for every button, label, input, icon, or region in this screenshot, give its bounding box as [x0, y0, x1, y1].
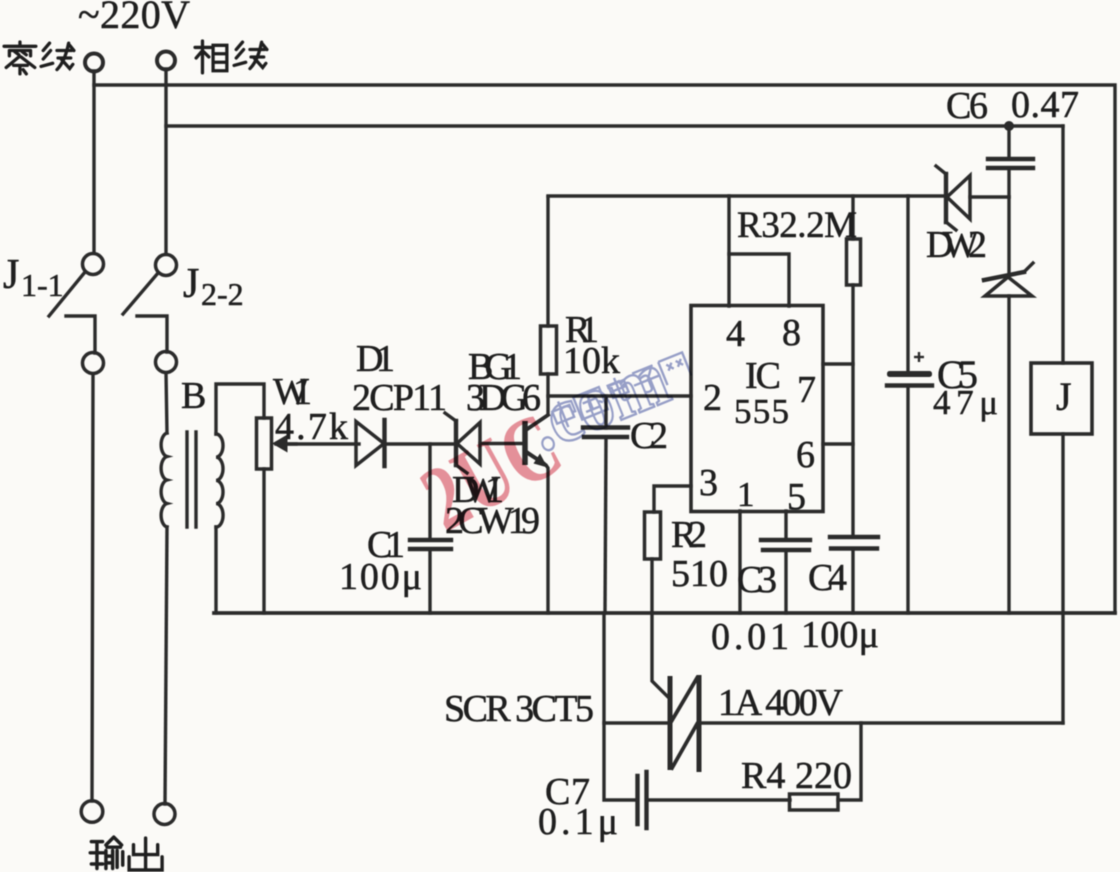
- capacitor C6: [988, 159, 1033, 168]
- wire Vcc rail right of DW2: [970, 195, 1009, 198]
- wire J2-2 to transformer: [166, 373, 167, 433]
- wire C4 to bus: [851, 549, 854, 613]
- wire DW1 to BG1 base: [480, 442, 524, 445]
- IC 555 box: [691, 306, 823, 512]
- zener DW2: [936, 166, 970, 230]
- wire C2 stem: [604, 396, 607, 428]
- wire triac MT2 left: [604, 721, 669, 724]
- svg-text:100μ: 100μ: [339, 556, 422, 598]
- wire W1 wiper to D1: [276, 442, 359, 445]
- wire C1 stem: [428, 444, 431, 540]
- wire R3 top stem: [851, 196, 854, 239]
- relay J box: [1031, 363, 1092, 434]
- resistor R1: [541, 326, 557, 374]
- wire BG1 emitter to bus: [527, 452, 548, 613]
- capacitor C3: [761, 540, 810, 550]
- wire pin3 to R2: [654, 486, 691, 512]
- svg-text:SCR 3CT5: SCR 3CT5: [444, 688, 594, 730]
- resistor R4: [790, 794, 839, 810]
- label 输出: [90, 837, 162, 870]
- capacitor C7: [638, 772, 647, 828]
- wire R2 to gate: [652, 559, 668, 697]
- wire pin2: [548, 394, 691, 397]
- wire zener to bus: [1007, 296, 1010, 613]
- svg-text:J: J: [1056, 374, 1072, 419]
- wire C2 to bus: [605, 437, 606, 613]
- svg-text:6: 6: [796, 434, 815, 476]
- switch J2-2: [123, 255, 177, 373]
- svg-text:1A 400V: 1A 400V: [718, 682, 844, 724]
- svg-text:~220V: ~220V: [78, 0, 190, 37]
- svg-text:2: 2: [703, 377, 722, 419]
- svg-text:4.7k: 4.7k: [275, 406, 348, 448]
- wire C7 to R4: [647, 798, 790, 801]
- wire triac MT1 right: [700, 721, 1063, 724]
- wire W1 bottom to bus: [262, 469, 265, 613]
- wire D1 to DW1: [385, 442, 456, 445]
- svg-text:0.01: 0.01: [711, 616, 789, 658]
- svg-text:100μ: 100μ: [801, 614, 879, 656]
- label 零线: [4, 42, 74, 74]
- resistor R2: [645, 512, 661, 559]
- switch J1-1: [49, 254, 104, 374]
- wire J2-2 lower contact: [137, 316, 167, 352]
- svg-text:C3: C3: [737, 559, 777, 601]
- svg-text:2-2: 2-2: [201, 276, 244, 312]
- wire Vcc rail left: [548, 194, 944, 197]
- WATERMARKS: [405, 334, 692, 551]
- wire R3 bottom to C4: [851, 285, 854, 537]
- label J1-1: [3, 252, 64, 303]
- capacitor C2: [583, 428, 628, 438]
- wire C6 node stem: [1007, 126, 1010, 159]
- wire ground bottom bus: [214, 611, 1115, 615]
- transformer B secondary winding: [216, 434, 223, 527]
- terminal 相线: [157, 52, 175, 70]
- wire neutral top bus: [94, 85, 1115, 613]
- node dot C6 junction: [1004, 121, 1014, 131]
- svg-text:D1: D1: [356, 338, 395, 380]
- wire C6 to DW2 rail: [1007, 168, 1010, 197]
- svg-text:R2: R2: [671, 514, 707, 556]
- svg-text:J: J: [183, 261, 199, 307]
- resistor R3: [847, 239, 861, 285]
- wire pin6 stub: [823, 442, 853, 445]
- svg-text:1: 1: [737, 475, 755, 514]
- svg-text:0.47: 0.47: [1011, 84, 1079, 126]
- wire DW2 rail to zener: [1007, 197, 1010, 273]
- svg-text:510: 510: [671, 553, 728, 595]
- wire J bottom drop: [1061, 434, 1064, 723]
- svg-text:R4 220: R4 220: [741, 755, 852, 797]
- triac SCR 3CT5: [670, 675, 699, 772]
- wire C1 to bus: [428, 549, 431, 613]
- wire R4 to triac wire: [838, 723, 861, 800]
- wire C5 stem: [906, 196, 909, 371]
- svg-text:IC: IC: [745, 355, 781, 397]
- capacitor C5 electrolytic: [887, 352, 932, 386]
- wire secondary top to W1: [216, 384, 264, 434]
- wire snubber left drop: [604, 613, 636, 800]
- svg-text:47μ: 47μ: [933, 383, 998, 422]
- wire transformer to output: [165, 527, 167, 804]
- potentiometer W1: [257, 418, 297, 469]
- svg-text:7: 7: [797, 369, 816, 411]
- capacitor C4: [830, 537, 878, 549]
- terminal 零线: [85, 54, 103, 72]
- svg-text:5: 5: [787, 476, 806, 518]
- wire J1-1 lower contact: [66, 316, 95, 353]
- svg-text:0.1μ: 0.1μ: [538, 801, 618, 843]
- svg-text:J: J: [3, 252, 19, 298]
- wire J1-1 to output: [92, 374, 93, 801]
- svg-text:C4: C4: [808, 557, 847, 599]
- transformer B primary winding: [161, 433, 167, 527]
- svg-text:4: 4: [726, 313, 745, 355]
- svg-text:C6: C6: [946, 85, 988, 127]
- wire pin7 stub: [823, 362, 853, 365]
- wire R1 top: [546, 197, 549, 326]
- zener vertical below DW2: [984, 263, 1033, 296]
- diode D1 2CP11: [356, 420, 385, 466]
- watermark blue 中国电子网: [549, 351, 692, 431]
- wire pin5 to C3: [784, 511, 787, 540]
- wire 零线 terminal drop: [92, 71, 95, 253]
- svg-text:R32.2M: R32.2M: [737, 205, 857, 246]
- transistor BG1 3DG6: [525, 415, 548, 468]
- wire R1 bottom / BG1 collector: [527, 374, 548, 429]
- wire 相线 terminal drop: [164, 69, 167, 254]
- label 相线: [195, 41, 267, 73]
- wire pin1 to bus: [738, 511, 741, 613]
- wire C5 to bus: [906, 386, 909, 613]
- svg-text:3: 3: [699, 462, 718, 504]
- svg-text:1-1: 1-1: [21, 267, 64, 303]
- svg-text:8: 8: [782, 312, 801, 354]
- wire secondary bottom to bus: [214, 527, 217, 613]
- zener DW1 2CW19: [445, 413, 480, 473]
- wire phase second bus: [166, 124, 1063, 127]
- svg-text:DW2: DW2: [926, 224, 987, 266]
- svg-text:555: 555: [734, 392, 789, 431]
- wire pin8 fork: [729, 254, 789, 306]
- wire drop to relay J: [1061, 126, 1064, 363]
- terminal output left: [81, 801, 103, 823]
- capacitor C1: [410, 540, 451, 549]
- terminal output right: [154, 804, 175, 825]
- transformer B core: [187, 432, 196, 527]
- label J2-2: [183, 261, 244, 312]
- svg-text:2CP11: 2CP11: [352, 377, 447, 419]
- svg-text:B: B: [181, 375, 206, 417]
- wire C3 to bus: [784, 550, 787, 613]
- wire pin4 feed: [727, 196, 730, 306]
